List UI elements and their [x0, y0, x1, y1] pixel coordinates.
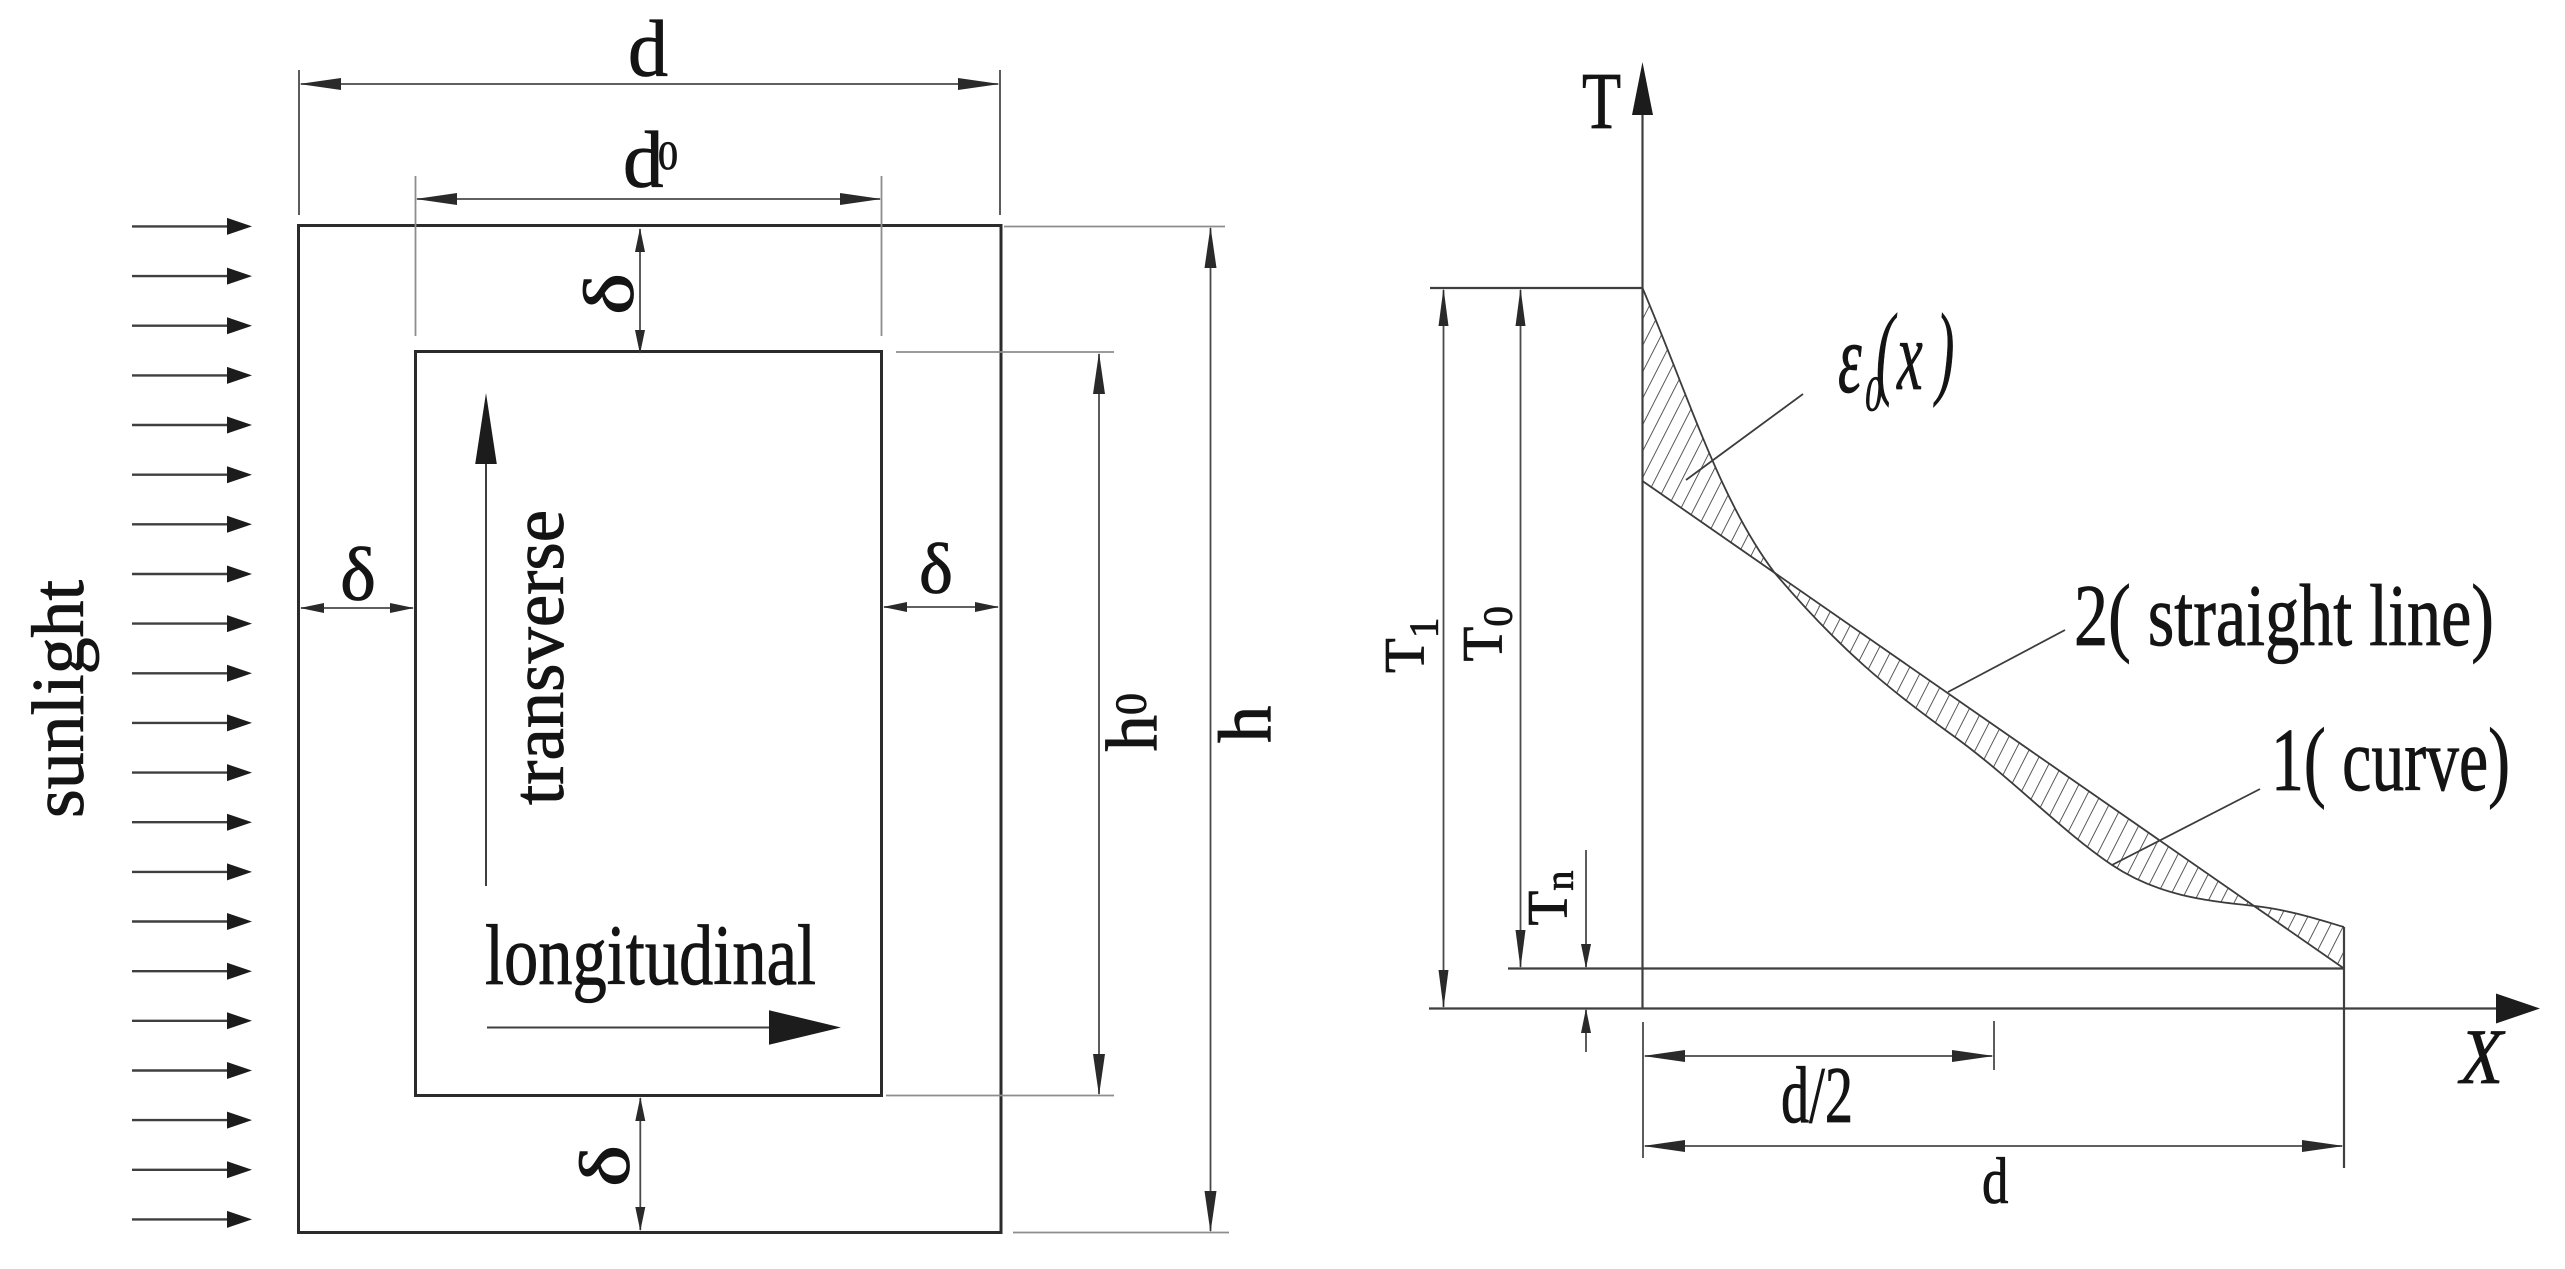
sunlight arrow 6: [132, 474, 229, 476]
svg-text:δ: δ: [566, 1145, 645, 1187]
sunlight arrow 20: [132, 1169, 229, 1171]
sunlight arrow 21: [132, 1218, 229, 1220]
sunlight arrow 4: [132, 374, 229, 376]
label: Tn (rotated): [1517, 871, 1582, 926]
top extension line at T1 level: [1430, 287, 1642, 289]
dimension h (outer height, right): [1004, 227, 1229, 1233]
leader 2: [1948, 630, 2065, 692]
sunlight arrow 3: [132, 325, 229, 327]
plate right edge: [2343, 927, 2345, 1168]
svg-text:0: 0: [658, 133, 678, 178]
sunlight arrow 18: [132, 1069, 229, 1071]
dimension delta (top gap): [635, 228, 645, 354]
sunlight arrow 19: [132, 1119, 229, 1121]
sunlight arrow 5: [132, 424, 229, 426]
curve 1: [1643, 288, 2345, 927]
label: 2( straight line): [2074, 568, 2494, 665]
dimension delta (left gap): [300, 603, 414, 613]
label: 1( curve): [2271, 711, 2510, 810]
svg-text:ε: ε: [1838, 303, 1862, 413]
sunlight arrow 9: [132, 622, 229, 624]
sunlight arrow 1: [132, 225, 229, 227]
hatched region top (epsilon area): [1643, 288, 1775, 572]
sunlight arrow 11: [132, 722, 229, 724]
label: d (top): [628, 6, 668, 94]
label: longitudinal: [485, 907, 816, 1003]
outer rectangle: [299, 226, 1002, 1233]
svg-text:x: x: [1896, 300, 1922, 411]
label: T0 (rotated): [1452, 606, 1521, 661]
longitudinal arrow: [487, 1010, 841, 1045]
T axis: [1632, 62, 1653, 1009]
svg-text:δ: δ: [570, 273, 649, 315]
label: epsilon0(x): [1838, 294, 1954, 422]
label: T1 (rotated): [1374, 618, 1447, 673]
svg-text:sunlight: sunlight: [18, 580, 100, 818]
svg-text:2( straight line): 2( straight line): [2074, 568, 2494, 665]
sunlight arrow 2: [132, 275, 229, 277]
leader 1: [2112, 789, 2260, 865]
label: sunlight: [18, 580, 100, 818]
sunlight arrow 7: [132, 523, 229, 525]
dimension h0 (inner height, right): [886, 352, 1114, 1096]
label: transverse: [498, 510, 580, 805]
label: d0 (top): [623, 115, 678, 205]
svg-text:d: d: [628, 6, 668, 94]
label: T: [1582, 56, 1621, 145]
sunlight arrow 8: [132, 573, 229, 575]
svg-text:T: T: [1582, 56, 1621, 145]
svg-text:h: h: [1204, 706, 1287, 744]
label: h0 (rotated): [1092, 693, 1173, 752]
label: delta (right): [919, 529, 953, 609]
hatched region middle lens: [1774, 572, 2255, 906]
dimension d/2: [1643, 1021, 1994, 1070]
sunlight arrow 10: [132, 672, 229, 674]
svg-text:d/2: d/2: [1781, 1052, 1853, 1140]
label: d/2: [1781, 1052, 1853, 1140]
svg-text:δ: δ: [919, 529, 953, 609]
dimension Tn upper leg: [1581, 850, 1591, 969]
label: delta (left): [340, 533, 376, 617]
label: d (bottom right): [1982, 1144, 2009, 1217]
svg-text:d: d: [1982, 1144, 2009, 1217]
sunlight arrow 14: [132, 871, 229, 873]
label: X: [2457, 1015, 2505, 1101]
straight line 2: [1643, 481, 2345, 969]
dimension Tn lower leg: [1581, 1009, 1591, 1053]
svg-text:longitudinal: longitudinal: [485, 907, 816, 1003]
leader epsilon: [1686, 394, 1803, 480]
dimension d0 (top, inner width): [416, 176, 882, 336]
svg-text:X: X: [2457, 1015, 2505, 1101]
extension below axis at x=1643: [1642, 1022, 1644, 1158]
sunlight arrow 12: [132, 771, 229, 773]
svg-text:): ): [1933, 294, 1954, 409]
sunlight arrows column: [132, 218, 252, 1228]
dimension delta (bottom gap): [635, 1097, 645, 1231]
dimension T1: [1439, 288, 1449, 1009]
label: delta (top, rotated): [570, 273, 649, 315]
hatched region right triangle: [2255, 906, 2344, 969]
X axis: [1429, 994, 2540, 1024]
inner rectangle: [416, 352, 882, 1096]
svg-text:1( curve): 1( curve): [2271, 711, 2510, 810]
dimension delta (right gap): [883, 602, 999, 612]
plate top line: [1508, 967, 2344, 969]
dimension d (top, outer width): [299, 70, 1000, 215]
transverse arrow: [475, 393, 497, 886]
sunlight arrow 13: [132, 821, 229, 823]
dimension d (bottom right): [1643, 1140, 2344, 1152]
svg-text:δ: δ: [340, 533, 376, 617]
sunlight arrow 15: [132, 920, 229, 922]
label: h (rotated): [1204, 706, 1287, 744]
svg-text:transverse: transverse: [498, 510, 580, 805]
label: delta (bottom, rotated): [566, 1145, 645, 1187]
sunlight arrow 17: [132, 1020, 229, 1022]
dimension T0: [1516, 288, 1526, 969]
sunlight arrow 16: [132, 970, 229, 972]
